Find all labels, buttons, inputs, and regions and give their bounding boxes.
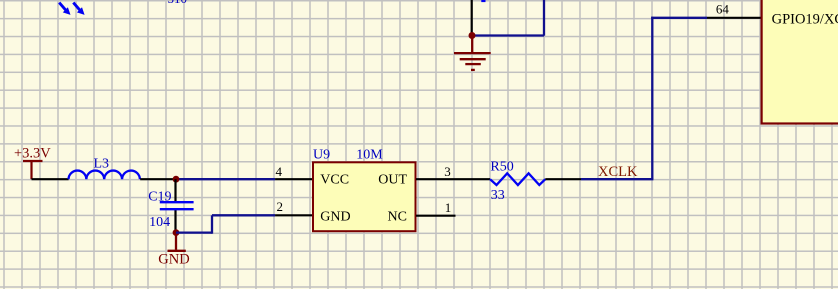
wire L3 to junction	[140, 178, 176, 180]
svg-text:VCC: VCC	[320, 173, 349, 188]
IC block (partial, top right)	[762, 0, 838, 124]
inductor L3	[69, 171, 140, 180]
pin 1 line	[416, 215, 456, 217]
svg-text:XCLK: XCLK	[598, 164, 638, 180]
svg-text:GND: GND	[158, 251, 189, 267]
ground earth symbol	[454, 36, 491, 70]
capacitor C19 plates	[160, 202, 194, 209]
svg-text:3: 3	[444, 164, 451, 179]
svg-text:4: 4	[276, 164, 283, 179]
component fragment blue sliver	[481, 0, 485, 2]
svg-text:U9: U9	[313, 148, 330, 163]
wire ground net right vertical	[543, 0, 545, 36]
wire vertical black to ground junction	[471, 0, 473, 36]
svg-text:33: 33	[491, 188, 505, 203]
svg-text:104: 104	[149, 215, 170, 230]
wire ground net horizontal	[472, 34, 544, 36]
svg-text:GND: GND	[320, 209, 350, 224]
wire R50 to corner	[581, 178, 653, 180]
svg-text:NC: NC	[388, 209, 407, 224]
oscillator U9 body	[313, 162, 416, 231]
svg-text:2: 2	[277, 199, 284, 214]
wire junction to pin4	[176, 178, 275, 180]
junction GND node	[173, 229, 180, 236]
diode arrow A2	[73, 3, 84, 15]
power symbol +3.3V	[23, 161, 43, 179]
pin 4 line	[275, 178, 312, 180]
svg-text:1: 1	[445, 200, 452, 215]
R50 right lead	[545, 178, 581, 180]
junction VCC node	[173, 176, 180, 183]
svg-text:OUT: OUT	[378, 173, 407, 188]
svg-text:510: 510	[168, 0, 188, 6]
svg-text:64: 64	[716, 1, 730, 16]
pin 3 line and R50 left lead	[416, 178, 490, 180]
wire to pin 64 (blue run)	[651, 17, 707, 180]
pin 2 line	[275, 214, 312, 216]
capacitor C19 leads	[174, 179, 176, 232]
pin 64 line	[707, 17, 761, 19]
svg-text:GPIO19/XCL: GPIO19/XCL	[772, 11, 838, 27]
svg-text:10M: 10M	[356, 148, 383, 163]
svg-text:L3: L3	[94, 156, 110, 171]
power symbol GND	[168, 234, 186, 251]
svg-text:+3.3V: +3.3V	[14, 145, 51, 161]
wire gnd junction to pin2 step	[176, 215, 275, 233]
wire power to L3	[32, 178, 69, 180]
resistor R50 zigzag	[490, 173, 545, 185]
svg-text:C19: C19	[148, 189, 171, 204]
diode arrow A1	[59, 3, 70, 15]
junction ground net	[469, 32, 476, 39]
svg-text:R50: R50	[490, 160, 513, 175]
